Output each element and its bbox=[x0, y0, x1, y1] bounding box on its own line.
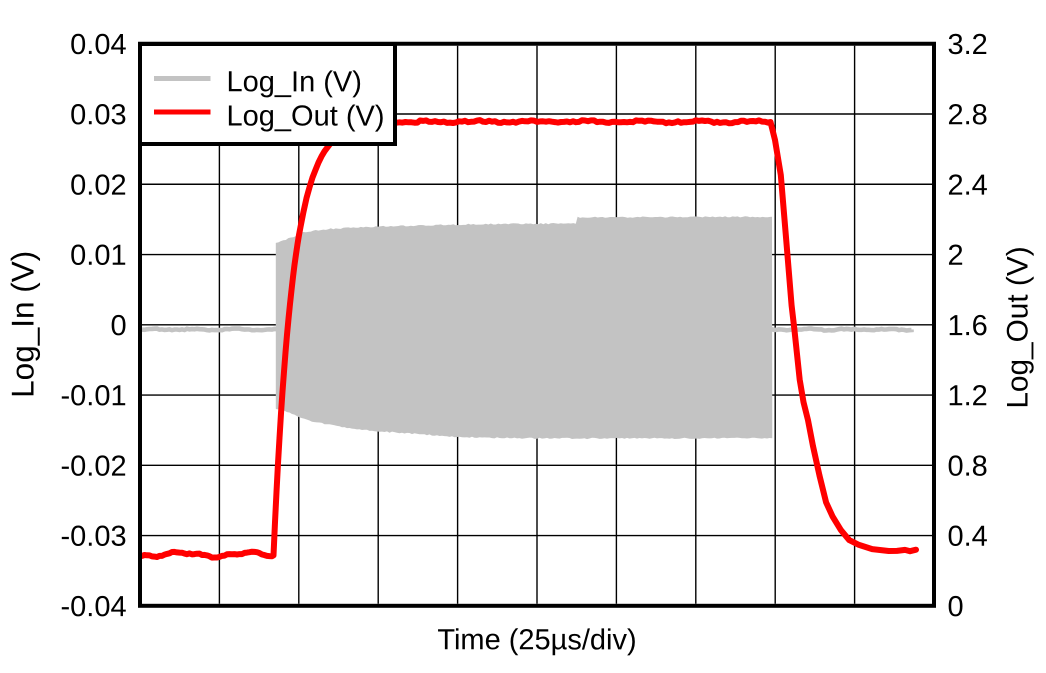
gray trace Log_In: left flat segment bbox=[142, 329, 278, 331]
svg-text:1.6: 1.6 bbox=[947, 310, 987, 342]
svg-text:3.2: 3.2 bbox=[947, 29, 987, 61]
gray trace Log_In: burst band bbox=[276, 216, 773, 439]
legend swatch red bbox=[154, 110, 211, 115]
gray trace Log_In: right flat segment bbox=[772, 329, 912, 331]
grid lines bbox=[142, 46, 932, 604]
svg-text:0.03: 0.03 bbox=[70, 99, 126, 131]
svg-text:1.2: 1.2 bbox=[947, 380, 987, 412]
svg-text:0: 0 bbox=[110, 310, 126, 342]
legend box bbox=[140, 44, 395, 144]
svg-text:Log_In (V): Log_In (V) bbox=[226, 66, 361, 98]
svg-text:0: 0 bbox=[947, 591, 963, 623]
svg-text:2: 2 bbox=[947, 240, 963, 272]
svg-text:0.04: 0.04 bbox=[70, 29, 126, 61]
svg-text:0.01: 0.01 bbox=[70, 240, 126, 272]
svg-text:Time (25µs/div): Time (25µs/div) bbox=[437, 624, 636, 656]
red trace Log_Out bbox=[142, 120, 916, 557]
svg-text:-0.01: -0.01 bbox=[60, 380, 126, 412]
svg-text:Log_Out (V): Log_Out (V) bbox=[226, 101, 384, 133]
svg-text:-0.02: -0.02 bbox=[60, 451, 126, 483]
svg-text:0.4: 0.4 bbox=[947, 521, 987, 553]
svg-text:2.8: 2.8 bbox=[947, 99, 987, 131]
svg-text:0.02: 0.02 bbox=[70, 170, 126, 202]
svg-text:Log_Out (V): Log_Out (V) bbox=[1002, 246, 1035, 408]
legend swatch gray bbox=[154, 76, 211, 81]
svg-text:-0.03: -0.03 bbox=[60, 521, 126, 553]
plot border bbox=[140, 44, 934, 606]
svg-text:0.8: 0.8 bbox=[947, 451, 987, 483]
svg-text:Log_In (V): Log_In (V) bbox=[5, 251, 41, 398]
svg-text:2.4: 2.4 bbox=[947, 170, 987, 202]
svg-text:-0.04: -0.04 bbox=[60, 591, 126, 623]
